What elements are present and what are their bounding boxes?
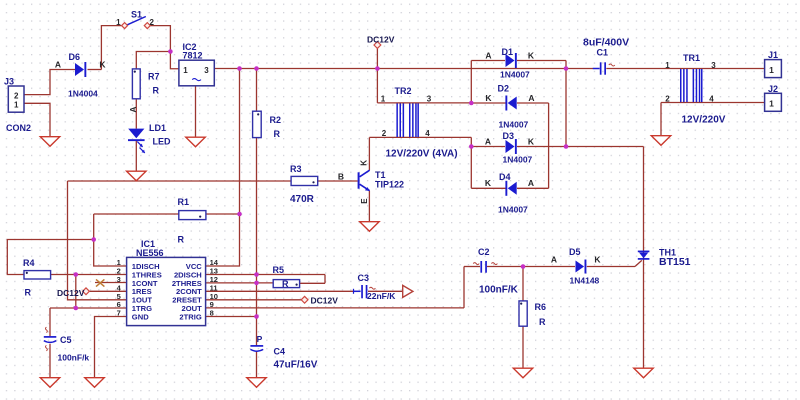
svg-text:TR1: TR1 bbox=[683, 53, 700, 63]
svg-text:R1: R1 bbox=[178, 197, 190, 207]
svg-text:R7: R7 bbox=[148, 71, 160, 81]
svg-text:1: 1 bbox=[665, 61, 670, 70]
svg-text:1N4007: 1N4007 bbox=[500, 69, 530, 79]
svg-text:100nF/K: 100nF/K bbox=[479, 284, 519, 295]
svg-text:1N4007: 1N4007 bbox=[498, 204, 528, 214]
svg-text:A: A bbox=[485, 51, 491, 61]
svg-text:K: K bbox=[528, 136, 535, 146]
svg-text:3: 3 bbox=[427, 94, 432, 103]
svg-text:7: 7 bbox=[117, 309, 121, 318]
svg-text:NE556: NE556 bbox=[136, 248, 164, 258]
svg-text:R3: R3 bbox=[290, 164, 302, 174]
svg-text:1N4007: 1N4007 bbox=[499, 120, 529, 130]
svg-text:S1: S1 bbox=[131, 10, 142, 20]
svg-text:D1: D1 bbox=[502, 47, 514, 57]
svg-text:R4: R4 bbox=[23, 258, 35, 268]
svg-text:2: 2 bbox=[665, 95, 670, 104]
svg-text:22nF/K: 22nF/K bbox=[367, 291, 396, 301]
svg-text:4: 4 bbox=[709, 95, 714, 104]
svg-text:R6: R6 bbox=[535, 302, 547, 312]
svg-text:B: B bbox=[338, 172, 344, 182]
svg-text:C2: C2 bbox=[478, 247, 490, 257]
svg-text:12V/220V: 12V/220V bbox=[682, 114, 726, 125]
svg-text:GND: GND bbox=[132, 312, 149, 321]
svg-text:D6: D6 bbox=[69, 52, 81, 62]
svg-text:12V/220V (4VA): 12V/220V (4VA) bbox=[386, 148, 458, 159]
svg-text:J3: J3 bbox=[4, 76, 14, 86]
svg-text:C3: C3 bbox=[358, 273, 370, 283]
svg-text:1: 1 bbox=[381, 94, 386, 103]
svg-text:DC12V: DC12V bbox=[57, 288, 85, 298]
svg-text:1: 1 bbox=[116, 18, 121, 27]
svg-text:LD1: LD1 bbox=[149, 123, 166, 133]
svg-text:E: E bbox=[360, 198, 369, 204]
svg-text:J1: J1 bbox=[768, 50, 778, 60]
svg-text:TR2: TR2 bbox=[395, 86, 412, 96]
svg-text:1: 1 bbox=[769, 65, 774, 75]
svg-text:2: 2 bbox=[382, 129, 387, 138]
svg-text:R: R bbox=[178, 235, 185, 245]
svg-text:R: R bbox=[25, 287, 32, 297]
svg-text:1N4148: 1N4148 bbox=[570, 275, 600, 285]
svg-text:R: R bbox=[274, 129, 281, 139]
svg-text:A: A bbox=[551, 255, 557, 265]
svg-text:BT151: BT151 bbox=[659, 256, 691, 268]
svg-text:K: K bbox=[528, 51, 535, 61]
svg-text:A: A bbox=[485, 136, 491, 146]
svg-text:1: 1 bbox=[183, 66, 188, 75]
svg-text:R: R bbox=[539, 317, 546, 327]
svg-text:C1: C1 bbox=[597, 48, 609, 58]
svg-text:C4: C4 bbox=[274, 346, 286, 356]
svg-text:4: 4 bbox=[425, 129, 430, 138]
svg-text:D4: D4 bbox=[499, 172, 511, 182]
svg-text:3: 3 bbox=[204, 66, 209, 75]
svg-text:C5: C5 bbox=[60, 335, 72, 345]
svg-text:LED: LED bbox=[153, 137, 172, 147]
svg-text:A: A bbox=[128, 106, 138, 112]
svg-text:1N4004: 1N4004 bbox=[68, 88, 98, 98]
svg-text:D2: D2 bbox=[498, 84, 510, 94]
svg-text:7812: 7812 bbox=[183, 51, 203, 61]
svg-text:100nF/k: 100nF/k bbox=[58, 352, 90, 362]
svg-text:R: R bbox=[153, 86, 160, 96]
svg-text:470R: 470R bbox=[290, 194, 315, 205]
svg-text:CON2: CON2 bbox=[6, 123, 31, 133]
svg-text:TIP122: TIP122 bbox=[375, 179, 404, 189]
svg-text:DC12V: DC12V bbox=[311, 296, 339, 306]
svg-text:A: A bbox=[55, 60, 61, 70]
svg-text:1N4007: 1N4007 bbox=[503, 155, 533, 165]
svg-text:DC12V: DC12V bbox=[367, 35, 395, 45]
svg-text:1: 1 bbox=[14, 101, 19, 110]
svg-text:1: 1 bbox=[769, 99, 774, 109]
svg-text:R: R bbox=[282, 279, 289, 289]
svg-text:A: A bbox=[528, 178, 534, 188]
svg-text:K: K bbox=[99, 60, 106, 70]
svg-text:8: 8 bbox=[210, 309, 214, 318]
svg-text:R2: R2 bbox=[270, 115, 282, 125]
svg-text:K: K bbox=[485, 178, 492, 188]
svg-text:A: A bbox=[528, 93, 534, 103]
svg-text:47uF/16V: 47uF/16V bbox=[274, 359, 318, 370]
svg-text:R5: R5 bbox=[273, 265, 285, 275]
svg-text:J2: J2 bbox=[768, 84, 778, 94]
svg-text:D5: D5 bbox=[569, 247, 581, 257]
svg-text:2: 2 bbox=[149, 18, 154, 27]
svg-text:P: P bbox=[257, 334, 263, 344]
svg-text:D3: D3 bbox=[503, 131, 515, 141]
svg-text:2TRIG: 2TRIG bbox=[179, 312, 201, 321]
svg-text:K: K bbox=[594, 255, 601, 265]
svg-text:8uF/400V: 8uF/400V bbox=[583, 36, 629, 48]
svg-text:K: K bbox=[360, 160, 369, 166]
svg-text:2: 2 bbox=[14, 92, 19, 101]
svg-text:3: 3 bbox=[711, 61, 716, 70]
svg-text:K: K bbox=[485, 93, 492, 103]
